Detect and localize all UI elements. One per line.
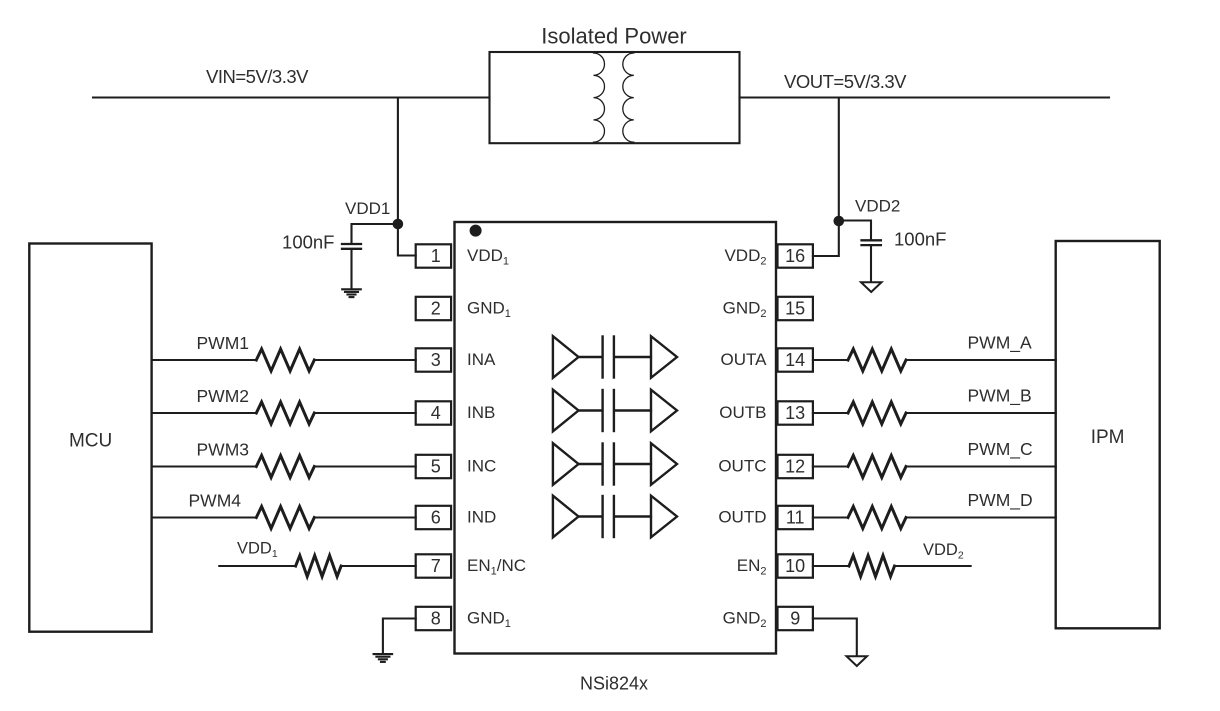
pin 2 box: [416, 297, 451, 320]
transformer T1 primary winding: [594, 53, 605, 142]
svg-text:16: 16: [785, 246, 805, 266]
capacitor C1: [342, 244, 361, 249]
pin 12 box: [778, 455, 813, 478]
ground (triangle) at C2: [861, 282, 882, 292]
wire: PWM4 net MCU to pin 6: [152, 516, 416, 518]
svg-text:6: 6: [431, 508, 441, 528]
resistor (PWM1 series): [256, 349, 314, 371]
svg-text:VDD1: VDD1: [237, 540, 278, 561]
svg-text:7: 7: [431, 556, 441, 576]
svg-text:VOUT=5V/3.3V: VOUT=5V/3.3V: [784, 71, 907, 92]
resistor (EN2 pull-up): [849, 556, 895, 577]
ground (earth) at pin 8: [374, 654, 393, 662]
resistor (PWM_D series): [848, 507, 906, 529]
resistor (PWM4 series): [256, 507, 314, 529]
wire: PWM_A net pin 14 to IPM: [813, 359, 1056, 361]
capacitor C2: [862, 240, 881, 245]
wire: VOUT rail: [740, 96, 1110, 98]
svg-text:12: 12: [785, 457, 805, 477]
svg-text:INB: INB: [467, 403, 495, 422]
svg-text:5: 5: [431, 457, 441, 477]
svg-text:MCU: MCU: [69, 431, 112, 452]
pin 4 box: [416, 401, 451, 424]
svg-text:100nF: 100nF: [894, 229, 946, 250]
wire: C1 to ground: [350, 250, 352, 288]
svg-text:GND2: GND2: [723, 609, 767, 631]
svg-text:PWM3: PWM3: [197, 440, 250, 460]
wire: pin 9 GND2 to ground: [813, 619, 857, 656]
svg-text:EN2: EN2: [737, 556, 767, 578]
U1 pin-1 indicator dot: [470, 225, 482, 237]
wire: PWM2 net MCU to pin 4: [152, 412, 416, 414]
isolated power module PS1 box: [490, 52, 740, 143]
svg-text:VIN=5V/3.3V: VIN=5V/3.3V: [206, 66, 309, 87]
wire: EN2 pull-up net: [813, 565, 971, 567]
svg-text:VDD2: VDD2: [923, 541, 964, 562]
isolation channel D (buffer-cap-buffer): [553, 496, 677, 538]
pin 1 box: [416, 244, 451, 267]
isolation channel A (buffer-cap-buffer): [553, 336, 677, 378]
svg-text:2: 2: [431, 299, 441, 319]
pin 7 box: [416, 554, 451, 577]
svg-text:PWM2: PWM2: [197, 386, 250, 406]
pin 5 box: [416, 455, 451, 478]
svg-text:GND1: GND1: [467, 609, 511, 631]
isolation channel B (buffer-cap-buffer): [553, 390, 677, 432]
transformer T1 secondary winding: [623, 53, 634, 142]
wire: PWM_C net pin 12 to IPM: [813, 465, 1056, 467]
svg-text:15: 15: [785, 299, 805, 319]
pin 3 box: [416, 348, 451, 371]
svg-text:OUTD: OUTD: [718, 508, 766, 527]
svg-text:8: 8: [431, 609, 441, 629]
resistor (EN1 pull-up): [296, 556, 342, 577]
svg-text:VDD2: VDD2: [855, 197, 900, 216]
svg-text:11: 11: [786, 508, 805, 528]
svg-text:OUTA: OUTA: [721, 350, 768, 369]
resistor (PWM3 series): [256, 456, 314, 478]
svg-text:PWM_D: PWM_D: [968, 490, 1033, 511]
pin 16 box: [778, 244, 813, 267]
wire: pin 8 GND1 to ground: [383, 619, 416, 653]
svg-text:INC: INC: [467, 457, 496, 476]
resistor (PWM_C series): [848, 456, 906, 478]
pin 11 box: [778, 506, 813, 529]
ground (earth) at C1: [342, 289, 361, 297]
isolation channel C (buffer-cap-buffer): [553, 443, 677, 485]
node VDD1 junction: [393, 219, 404, 230]
svg-text:VDD1: VDD1: [345, 199, 390, 218]
svg-text:PWM_B: PWM_B: [968, 386, 1032, 407]
pin 8 box: [416, 607, 451, 630]
svg-text:9: 9: [790, 609, 800, 629]
wire: PWM_D net pin 11 to IPM: [813, 516, 1056, 518]
svg-text:13: 13: [785, 403, 805, 423]
svg-text:IPM: IPM: [1091, 427, 1125, 448]
svg-text:GND1: GND1: [467, 299, 511, 321]
svg-text:GND2: GND2: [723, 299, 767, 321]
svg-text:PWM1: PWM1: [197, 333, 250, 353]
wire: VDD2 drop from VOUT rail: [813, 98, 839, 257]
pin 13 box: [778, 401, 813, 424]
wire: VDD1 drop from VIN rail: [398, 98, 416, 256]
svg-text:PWM4: PWM4: [189, 491, 242, 511]
svg-text:OUTC: OUTC: [718, 457, 766, 476]
IPM box: [1056, 241, 1160, 628]
pin 6 box: [416, 506, 451, 529]
ground (triangle) at pin 9: [847, 656, 868, 666]
svg-text:3: 3: [431, 350, 441, 370]
svg-text:14: 14: [785, 350, 805, 370]
svg-text:IND: IND: [467, 508, 496, 527]
wire: branch to C2: [839, 221, 871, 240]
svg-text:VDD2: VDD2: [724, 246, 766, 268]
wire: branch to C1: [352, 224, 398, 243]
resistor (PWM_B series): [848, 402, 906, 424]
wire: EN1 pull-up net: [219, 565, 415, 567]
svg-text:Isolated Power: Isolated Power: [541, 24, 687, 49]
resistor (PWM2 series): [256, 402, 314, 424]
svg-text:PWM_C: PWM_C: [968, 439, 1033, 460]
wire: VIN rail: [93, 96, 490, 98]
resistor (PWM_A series): [848, 349, 906, 371]
pin 15 box: [778, 297, 813, 320]
svg-text:EN1/NC: EN1/NC: [467, 556, 526, 578]
svg-text:INA: INA: [467, 350, 496, 369]
svg-text:1: 1: [431, 246, 441, 266]
svg-text:NSi824x: NSi824x: [580, 674, 648, 694]
svg-text:100nF: 100nF: [282, 231, 334, 252]
pin 14 box: [778, 348, 813, 371]
wire: C2 to ground: [870, 246, 872, 282]
wire: PWM_B net pin 13 to IPM: [813, 412, 1056, 414]
pin 9 box: [778, 607, 813, 630]
wire: PWM3 net MCU to pin 5: [152, 465, 416, 467]
op-amp U1 NSi824x isolator body: [455, 222, 777, 654]
MCU box: [29, 244, 151, 632]
svg-text:PWM_A: PWM_A: [968, 333, 1033, 354]
svg-text:4: 4: [431, 403, 441, 423]
svg-text:OUTB: OUTB: [719, 403, 766, 422]
svg-text:VDD1: VDD1: [467, 246, 509, 268]
svg-text:10: 10: [785, 556, 805, 576]
wire: PWM1 net MCU to pin 3: [152, 359, 416, 361]
node VDD2 junction: [834, 216, 845, 227]
pin 10 box: [778, 554, 813, 577]
